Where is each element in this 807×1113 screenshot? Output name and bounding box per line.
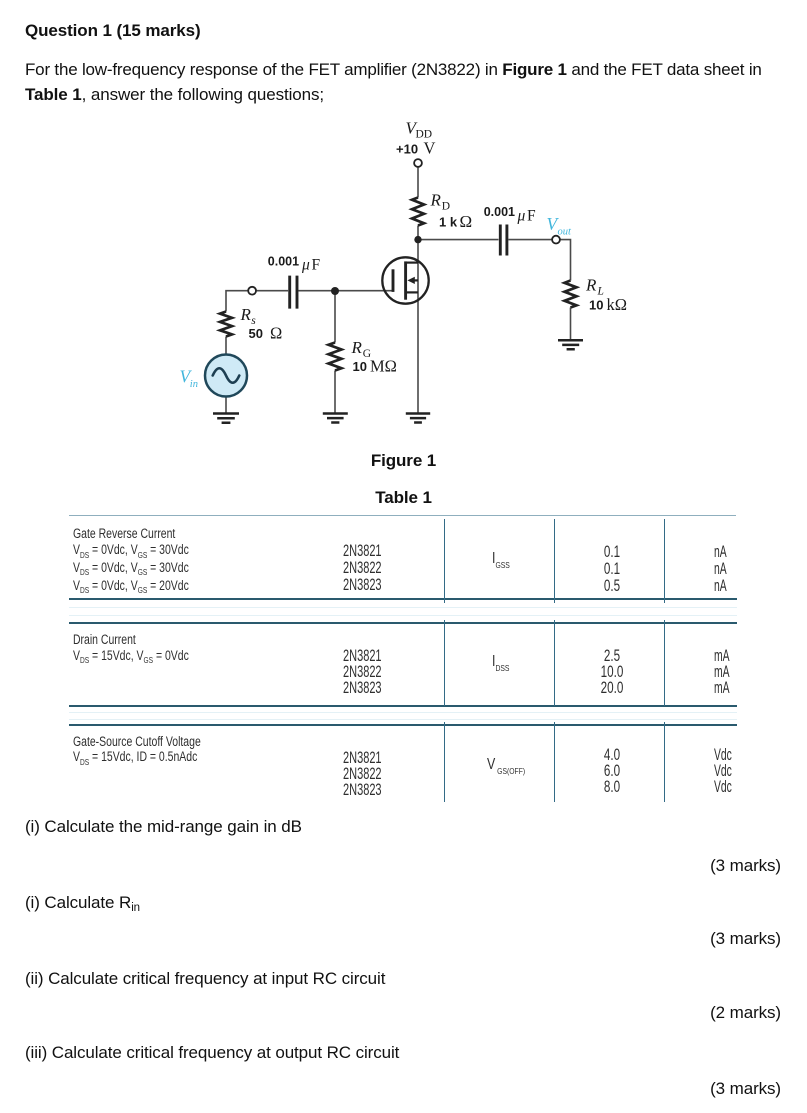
wire input terminal to input capacitor — [256, 290, 288, 292]
wire Rs top corner to input terminal — [226, 291, 248, 312]
ground under FET source — [406, 414, 430, 423]
label RG — [351, 338, 372, 360]
header text — [25, 22, 201, 40]
capacitor C1 0.001 uF input — [290, 276, 297, 309]
data sheet table — [69, 515, 736, 516]
resistor RG 10 MOhm — [329, 343, 342, 371]
node drain junction — [414, 236, 421, 243]
wire gate node down to RG — [334, 291, 336, 343]
svg-text:R: R — [585, 276, 597, 295]
svg-text:μ: μ — [517, 208, 526, 225]
resistor RD 1 kOhm — [412, 198, 424, 226]
svg-text:L: L — [597, 286, 604, 298]
wire RG to ground — [334, 371, 336, 414]
ground under RL — [558, 340, 583, 349]
wire Vout terminal to RL — [560, 240, 571, 281]
svg-text:out: out — [558, 227, 573, 238]
resistor Rs 50 Ohm — [220, 312, 232, 337]
label 0.001 uF output — [484, 205, 536, 225]
svg-text:F: F — [527, 208, 536, 225]
question (i) mid-range gain — [25, 818, 302, 836]
svg-text:0.001: 0.001 — [484, 205, 515, 219]
svg-text:MΩ: MΩ — [370, 357, 397, 376]
wire output capacitor to Vout terminal — [508, 239, 552, 241]
wire VDD terminal to RD — [417, 167, 419, 197]
node Vout terminal — [552, 236, 560, 244]
svg-text:R: R — [430, 191, 442, 210]
label +10 V — [396, 139, 436, 158]
label RD — [430, 191, 451, 213]
svg-text:μ: μ — [301, 257, 310, 274]
wire drain node to output capacitor — [418, 239, 499, 241]
svg-text:0.001: 0.001 — [268, 255, 299, 269]
ground under RG — [323, 414, 348, 423]
svg-text:V: V — [424, 139, 436, 158]
wire Vin source to ground — [225, 397, 227, 413]
figure caption — [0, 452, 807, 470]
node input terminal — [248, 287, 256, 295]
question (ii) — [25, 970, 385, 988]
question (iii) — [25, 1044, 399, 1062]
label RL — [585, 276, 604, 298]
source Vin AC — [205, 355, 247, 397]
circuit: FET amplifier Figure 1 — [0, 110, 807, 475]
svg-text:10: 10 — [353, 359, 367, 374]
table caption — [0, 489, 807, 507]
svg-text:50: 50 — [249, 326, 263, 341]
transistor Q1 2N3822 FET — [382, 257, 428, 303]
wire Rs to Vin source — [225, 337, 227, 355]
svg-text:Ω: Ω — [270, 324, 282, 343]
svg-text:kΩ: kΩ — [607, 295, 628, 314]
label Vin — [180, 367, 198, 391]
wire input capacitor to gate — [298, 290, 392, 292]
svg-text:10: 10 — [589, 298, 603, 313]
capacitor C2 0.001 uF output — [500, 225, 507, 256]
question (i) Rin — [25, 894, 140, 914]
wire RL to ground — [570, 308, 572, 341]
label 50 Ohm — [249, 324, 283, 343]
wire drain rail (RD bottom through FET to source ground) — [417, 226, 419, 414]
label Rs — [240, 305, 257, 327]
svg-text:in: in — [190, 379, 198, 390]
label 1 kOhm — [439, 212, 472, 231]
resistor RL 10 kOhm — [565, 281, 577, 308]
svg-text:R: R — [240, 305, 252, 324]
svg-text:1 k: 1 k — [439, 215, 458, 230]
label Vout — [547, 214, 573, 238]
svg-text:Ω: Ω — [460, 212, 473, 231]
label 10 kOhm — [589, 295, 627, 314]
svg-text:D: D — [442, 201, 450, 213]
label 10 MOhm — [353, 357, 397, 376]
ground under Vin — [213, 414, 239, 423]
VDD supply terminal — [414, 159, 422, 167]
svg-text:+10: +10 — [396, 142, 418, 157]
label VDD — [406, 119, 433, 141]
node gate junction — [331, 287, 339, 295]
label 0.001 uF input — [268, 255, 321, 274]
svg-text:F: F — [312, 257, 321, 274]
svg-text:R: R — [351, 338, 363, 357]
